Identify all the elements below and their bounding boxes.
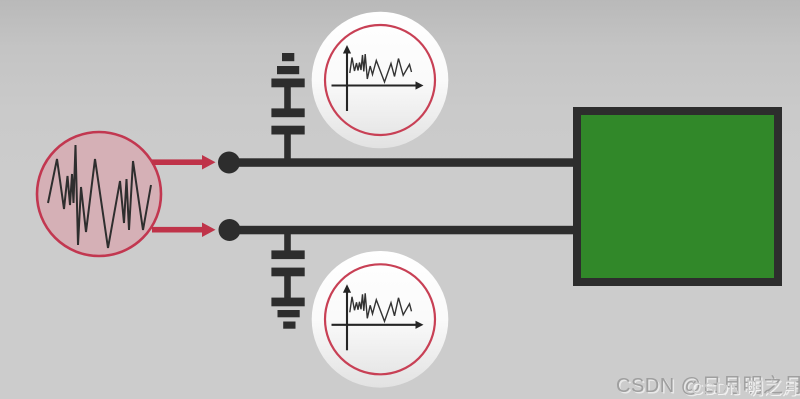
noise source NS1 (disturbance circle) [37, 132, 161, 256]
arrow A2 (noise into node B) [152, 223, 216, 238]
capacitor C1 (top Y-capacitor) [271, 108, 304, 134]
watermark CSDN text 1 [616, 369, 800, 398]
wire W2 (bottom line to load) [229, 226, 579, 235]
scope inset S2 (waveform on bottom line) [312, 251, 449, 388]
wire stub to C1 [284, 134, 291, 160]
arrow A1 (noise into node A) [152, 155, 216, 170]
scope inset S1 (waveform on top line) [312, 12, 449, 149]
load U1 (green equipment box) [577, 111, 778, 282]
wire C2 to ground G2 [284, 276, 291, 298]
node A [218, 152, 240, 174]
node B [219, 219, 241, 241]
ground G1 (chassis, above C1) [271, 53, 304, 87]
wire stub to C2 [284, 233, 291, 251]
ground G2 (chassis, below C2) [271, 298, 304, 329]
wire W1 (top line to load) [229, 158, 579, 167]
watermark CSDN text 2 [691, 374, 800, 399]
wire C1 to ground G1 [284, 87, 291, 109]
capacitor C2 (bottom Y-capacitor) [271, 250, 304, 276]
